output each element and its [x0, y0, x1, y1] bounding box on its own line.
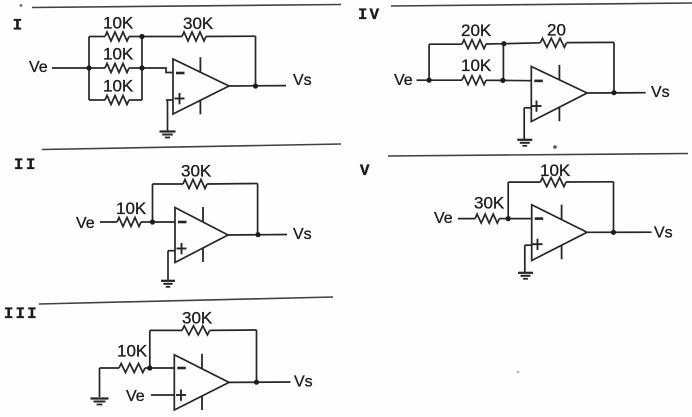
svg-text:30K: 30K	[182, 309, 213, 328]
svg-text:10K: 10K	[540, 161, 571, 180]
svg-text:10K: 10K	[103, 45, 134, 64]
svg-text:IV: IV	[358, 6, 381, 24]
svg-text:II: II	[14, 156, 38, 174]
svg-text:Vs: Vs	[294, 374, 313, 391]
svg-text:30K: 30K	[474, 194, 505, 213]
svg-text:10K: 10K	[117, 342, 148, 361]
svg-text:Ve: Ve	[29, 59, 48, 76]
svg-text:Vs: Vs	[293, 226, 312, 243]
svg-text:Ve: Ve	[126, 388, 145, 405]
svg-text:Vs: Vs	[654, 225, 673, 242]
svg-text:10K: 10K	[461, 56, 492, 75]
svg-text:Ve: Ve	[434, 210, 453, 227]
svg-text:30K: 30K	[183, 14, 214, 33]
svg-text:10K: 10K	[103, 14, 134, 33]
svg-text:Ve: Ve	[76, 215, 95, 232]
svg-text:10K: 10K	[116, 199, 147, 218]
svg-text:30K: 30K	[181, 162, 212, 181]
svg-text:I: I	[13, 17, 23, 35]
svg-text:10K: 10K	[103, 77, 134, 96]
svg-text:20: 20	[547, 21, 566, 40]
svg-text:V: V	[360, 162, 370, 180]
svg-text:III: III	[4, 305, 39, 323]
svg-text:20K: 20K	[461, 21, 492, 40]
svg-text:Vs: Vs	[651, 84, 670, 101]
svg-text:Ve: Ve	[394, 72, 413, 89]
svg-text:Vs: Vs	[293, 72, 312, 89]
